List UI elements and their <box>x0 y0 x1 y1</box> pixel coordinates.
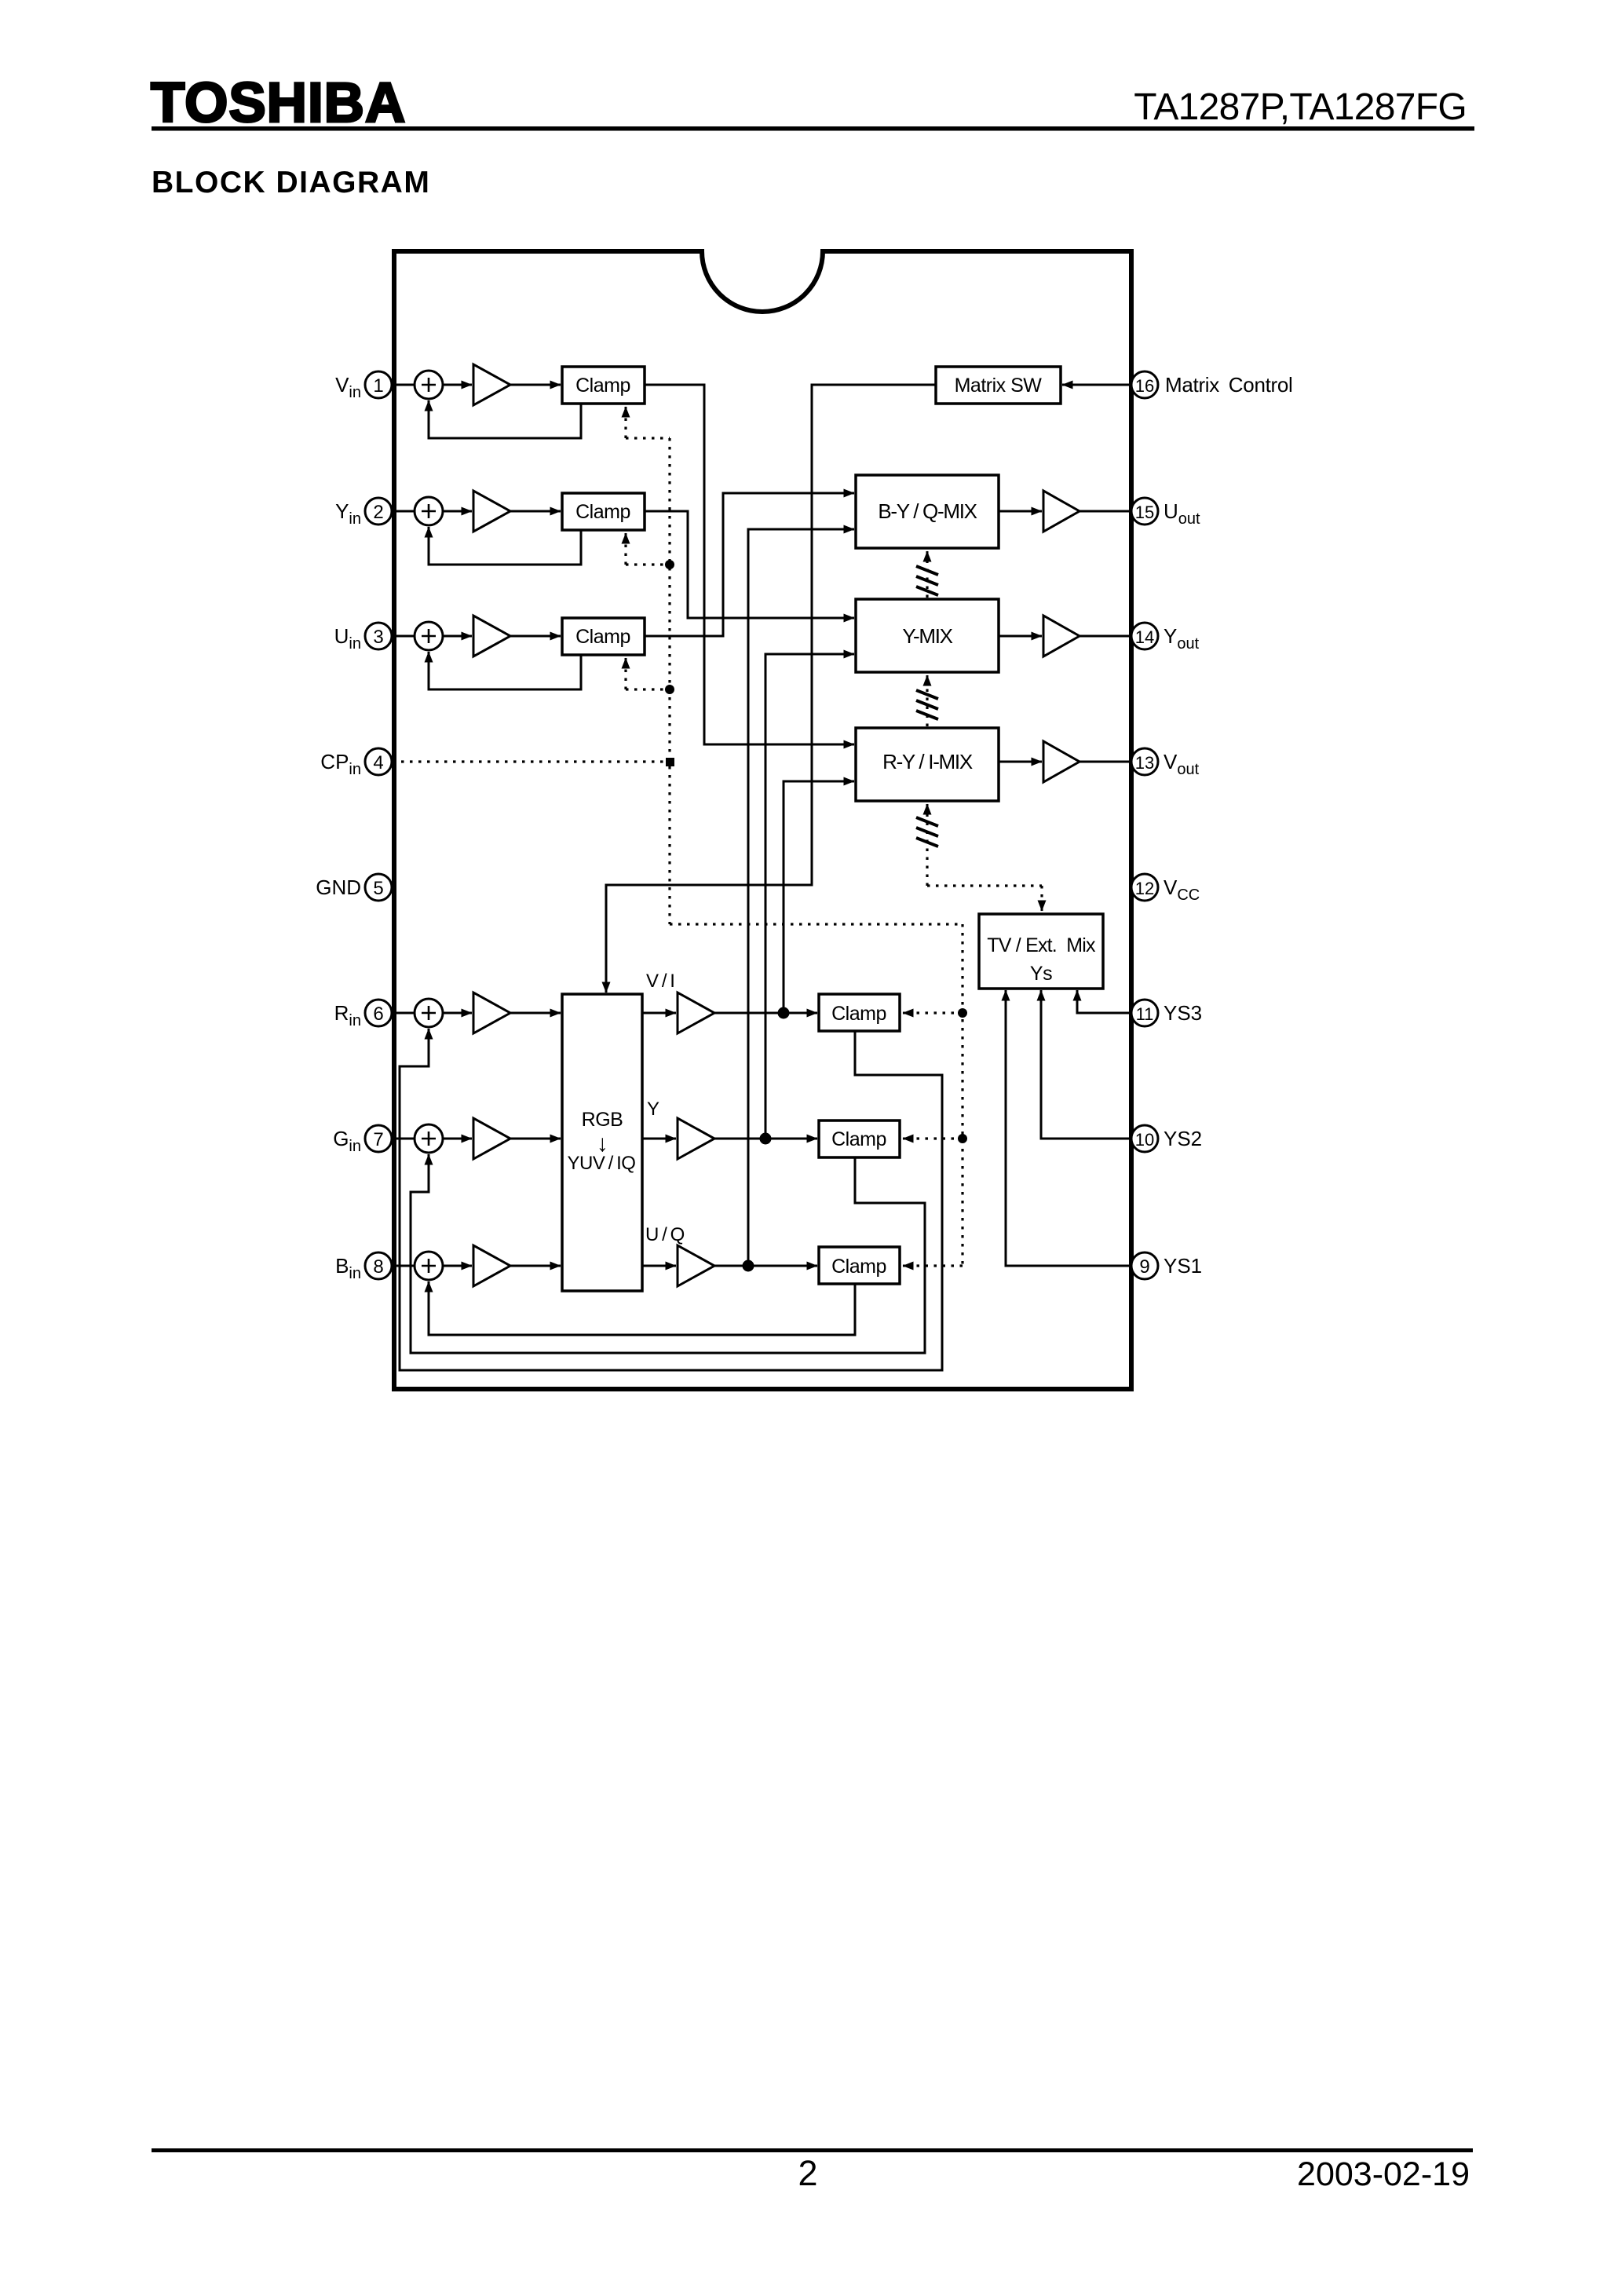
pin 6 circle <box>365 1000 392 1026</box>
wire A2 to clamp2 <box>510 510 561 513</box>
wire A15 to pin15 <box>1080 510 1131 513</box>
svg-text:YS1: YS1 <box>1164 1254 1202 1278</box>
summing junction S3 <box>415 622 443 650</box>
dashed control into B-Y/Q-MIX bottom <box>926 561 928 598</box>
wire A1 to clamp1 <box>510 384 561 386</box>
svg-text:Vin: Vin <box>335 373 361 401</box>
wire S7 to amp A7 <box>443 1138 472 1140</box>
summing junction S7 <box>415 1124 443 1153</box>
clamp box row1 <box>562 367 645 404</box>
wire A8 to RGB matrix <box>510 1265 561 1267</box>
dashed arrow stub into clamp3 bottom <box>625 658 627 667</box>
wire S2 to amp A2 <box>443 510 472 513</box>
wire feedback row8 loop <box>429 1281 855 1335</box>
dotted clamp2 bottom horizontal <box>626 563 670 565</box>
svg-text:3: 3 <box>373 627 383 648</box>
pin 1 circle <box>365 371 392 398</box>
svg-text:Matrix Control: Matrix Control <box>1165 373 1293 397</box>
dashed arrow stub into Y-MIX <box>926 675 929 685</box>
wire A10 to clamp7 <box>714 1138 817 1140</box>
svg-text:6: 6 <box>373 1004 383 1025</box>
clamp box row7 <box>819 1121 900 1157</box>
dotted wire CPin row <box>393 760 667 762</box>
pin 8 circle <box>365 1252 392 1279</box>
pin 12 circle <box>1131 874 1158 901</box>
pin 16 circle <box>1131 371 1158 398</box>
amplifier A3 <box>473 616 510 656</box>
wire feedback row3 <box>429 652 581 689</box>
svg-text:Y-MIX: Y-MIX <box>902 624 952 648</box>
dotted junction square CPin <box>666 758 674 766</box>
wire A3 to clamp3 <box>510 635 561 638</box>
header rule <box>152 126 1474 131</box>
summing junction S1 <box>415 371 443 399</box>
svg-text:2003-02-19: 2003-02-19 <box>1297 2155 1470 2193</box>
dashed arrow stub into R-Y/I-MIX <box>926 804 929 812</box>
wire pin6 to summing S6 <box>392 1012 415 1015</box>
svg-text:Clamp: Clamp <box>831 1128 886 1150</box>
svg-text:R-Y / I-MIX: R-Y / I-MIX <box>882 750 973 773</box>
svg-text:4: 4 <box>373 752 383 773</box>
svg-text:Matrix SW: Matrix SW <box>955 375 1043 397</box>
clamp box row6 <box>819 994 900 1031</box>
wire Matrix SW to RGB matrix top <box>606 385 936 993</box>
amplifier A15 <box>1043 491 1080 532</box>
svg-text:16: 16 <box>1135 376 1154 396</box>
svg-text:Uin: Uin <box>334 624 361 653</box>
R-Y/I-MIX box <box>856 728 999 801</box>
summing junction S2 <box>415 497 443 525</box>
clamp box row3 <box>562 618 645 655</box>
Matrix SW box <box>936 367 1061 404</box>
svg-text:V / I: V / I <box>646 971 674 992</box>
dashed arrow stub into clamp7 right <box>903 1138 912 1140</box>
amplifier A13 <box>1043 741 1080 782</box>
wire clamp1 out to R-Y/I-MIX input1 <box>645 385 854 744</box>
svg-text:Clamp: Clamp <box>575 501 630 523</box>
svg-text:VCC: VCC <box>1164 876 1200 904</box>
svg-text:Rin: Rin <box>334 1001 361 1029</box>
svg-text:Yout: Yout <box>1164 624 1200 653</box>
dotted clamp2 bottom vertical <box>624 543 627 565</box>
svg-text:YS2: YS2 <box>1164 1127 1202 1150</box>
svg-text:CPin: CPin <box>320 750 361 778</box>
svg-text:Clamp: Clamp <box>575 375 630 397</box>
svg-text:2: 2 <box>798 2153 817 2193</box>
svg-text:Bin: Bin <box>335 1254 361 1282</box>
dotted into clamp6 right <box>912 1011 963 1014</box>
wire clamp2 out to Y-MIX input1 <box>645 511 854 618</box>
svg-text:Clamp: Clamp <box>831 1003 886 1025</box>
amplifier A14 <box>1043 616 1080 656</box>
svg-text:TOSHIBA: TOSHIBA <box>151 72 406 134</box>
svg-text:YS3: YS3 <box>1164 1001 1202 1025</box>
dotted junction dot row3 <box>665 685 674 694</box>
svg-text:Vout: Vout <box>1164 750 1200 778</box>
junction dot row7 <box>761 1134 770 1143</box>
wire feedback row7 long loop <box>411 1154 925 1353</box>
wire feedback row1 <box>429 400 581 438</box>
svg-text:1: 1 <box>373 375 383 397</box>
pin 15 circle <box>1131 498 1158 525</box>
dotted junction dot row2 <box>665 560 674 569</box>
svg-text:8: 8 <box>373 1256 383 1278</box>
wire Y-MIX to amp A14 <box>999 635 1042 638</box>
wire pin10 YS2 to TV/Ext box <box>1041 990 1131 1139</box>
dashed control down into TV/Ext box top <box>1040 886 1043 901</box>
pin 10 circle <box>1131 1125 1158 1152</box>
wire U/Q bus row8 to B-Y/Q-MIX input2 <box>748 529 854 1266</box>
wire A7 to RGB matrix <box>510 1138 561 1140</box>
Y-MIX box <box>856 599 999 672</box>
dotted junction dot row6 right <box>958 1008 967 1018</box>
B-Y/Q-MIX box <box>856 475 999 548</box>
pin 9 circle <box>1131 1252 1158 1279</box>
wire B-Y/Q-MIX to amp A15 <box>999 510 1042 513</box>
clamp box row2 <box>562 493 645 530</box>
pin 4 circle <box>365 748 392 775</box>
wire A11 to clamp8 <box>714 1265 817 1267</box>
dotted clamp1 bottom vertical <box>624 416 627 438</box>
dotted junction dot row7 right <box>958 1134 967 1143</box>
summing junction S6 <box>415 999 443 1027</box>
wire pin16 to Matrix SW <box>1062 384 1131 386</box>
svg-text:15: 15 <box>1135 503 1154 522</box>
svg-text:RGB: RGB <box>582 1109 623 1131</box>
svg-text:BLOCK DIAGRAM: BLOCK DIAGRAM <box>152 166 430 199</box>
dashed arrow stub into clamp6 right <box>903 1012 912 1015</box>
dashed arrow stub into clamp2 bottom <box>625 533 627 543</box>
bus slashes below B-Y/Q-MIX <box>916 566 938 595</box>
svg-text:YUV / IQ: YUV / IQ <box>568 1153 636 1174</box>
wire A6 to RGB matrix <box>510 1012 561 1015</box>
svg-text:7: 7 <box>373 1129 383 1150</box>
summing junction S8 <box>415 1252 443 1280</box>
dashed arrow stub into B-Y/Q-MIX <box>926 551 929 561</box>
footer rule <box>152 2148 1473 2152</box>
IC package outline <box>394 251 1131 1389</box>
wire pin7 to summing S7 <box>392 1138 415 1140</box>
wire A13 to pin13 <box>1080 761 1131 763</box>
amplifier A8 <box>473 1245 510 1286</box>
pin 7 circle <box>365 1125 392 1152</box>
svg-text:U / Q: U / Q <box>645 1224 685 1245</box>
amplifier A9 V/I <box>678 993 714 1033</box>
wire S1 to amp A1 <box>443 384 472 386</box>
svg-text:Uout: Uout <box>1164 499 1200 528</box>
bus slashes below Y-MIX <box>916 690 938 719</box>
dashed control horizontal to TV/Ext mix <box>927 884 1042 887</box>
svg-text:GND: GND <box>316 876 361 899</box>
pin 3 circle <box>365 623 392 649</box>
bus slashes below R-Y/I-MIX <box>916 817 938 846</box>
wire pin1 to summing S1 <box>392 384 415 386</box>
wire RGB out U/Q to amp A11 <box>642 1265 676 1267</box>
dotted into clamp8 right <box>912 1264 963 1267</box>
dotted horizontal y1177 <box>670 923 963 925</box>
wire pin9 YS1 to TV/Ext box <box>1006 990 1131 1266</box>
wire pin11 YS3 to TV/Ext box <box>1077 990 1131 1013</box>
wire S6 to amp A6 <box>443 1012 472 1015</box>
wire A9 to clamp6 <box>714 1012 817 1015</box>
amplifier A1 <box>473 364 510 405</box>
dotted clamp3 bottom horizontal <box>626 688 670 690</box>
svg-text:Yin: Yin <box>335 499 361 528</box>
dotted clamp1 bottom horizontal <box>626 437 670 439</box>
wire R-Y/I-MIX to amp A13 <box>999 761 1042 763</box>
dashed control into R-Y/I-MIX bottom <box>926 812 928 886</box>
svg-text:TV / Ext. Mix: TV / Ext. Mix <box>987 934 1096 956</box>
dotted vertical bus x1226 <box>961 924 963 1266</box>
TV/Ext Mix Ys box <box>979 914 1103 989</box>
amplifier A6 <box>473 993 510 1033</box>
wire clamp3 out to B-Y/Q-MIX input1 <box>645 493 854 636</box>
svg-text:9: 9 <box>1139 1256 1149 1278</box>
junction dot row8 <box>743 1261 753 1270</box>
wire A14 to pin14 <box>1080 635 1131 638</box>
svg-text:Y: Y <box>647 1099 659 1120</box>
svg-text:Clamp: Clamp <box>575 626 630 648</box>
wire feedback row2 <box>429 527 581 565</box>
pin 5 circle <box>365 874 392 901</box>
svg-text:14: 14 <box>1135 627 1154 647</box>
dashed arrow stub into TV/Ext box top <box>1041 901 1043 911</box>
dotted into clamp7 right <box>912 1137 963 1139</box>
amplifier A11 U/Q <box>678 1245 714 1286</box>
wire pin3 to summing S3 <box>392 635 415 638</box>
svg-text:Gin: Gin <box>333 1127 361 1155</box>
pin 13 circle <box>1131 748 1158 775</box>
svg-text:13: 13 <box>1135 753 1154 773</box>
pin 14 circle <box>1131 623 1158 649</box>
wire RGB out V/I to amp A9 <box>642 1012 676 1015</box>
wire Y bus row7 to Y-MIX input2 <box>765 654 854 1139</box>
svg-text:12: 12 <box>1135 879 1154 898</box>
wire pin2 to summing S2 <box>392 510 415 513</box>
wire V/I bus row6 to R-Y/I-MIX input2 <box>784 781 854 1013</box>
dotted clamp3 bottom vertical <box>624 667 627 689</box>
wire S3 to amp A3 <box>443 635 472 638</box>
amplifier A2 <box>473 491 510 532</box>
junction dot row6 <box>779 1008 788 1018</box>
pin 11 circle <box>1131 1000 1158 1026</box>
wire feedback row6 long loop <box>400 1029 942 1370</box>
pin 2 circle <box>365 498 392 525</box>
dashed arrow stub into clamp1 bottom <box>625 407 627 416</box>
wire pin8 to summing S8 <box>392 1265 415 1267</box>
wire RGB out Y to amp A10 <box>642 1138 676 1140</box>
svg-text:Clamp: Clamp <box>831 1256 886 1278</box>
svg-text:B-Y / Q-MIX: B-Y / Q-MIX <box>878 499 977 523</box>
svg-text:10: 10 <box>1135 1130 1154 1150</box>
svg-text:Ys: Ys <box>1030 963 1052 985</box>
svg-text:11: 11 <box>1136 1004 1154 1024</box>
svg-text:2: 2 <box>373 502 383 523</box>
amplifier A10 Y <box>678 1118 714 1159</box>
svg-text:TA1287P,TA1287FG: TA1287P,TA1287FG <box>1134 86 1467 128</box>
svg-text:5: 5 <box>373 878 383 899</box>
RGB to YUV/IQ matrix box <box>562 994 642 1291</box>
dotted main vertical bus x853 <box>668 438 670 924</box>
amplifier A7 <box>473 1118 510 1159</box>
dashed arrow stub into clamp8 right <box>903 1265 912 1267</box>
wire S8 to amp A8 <box>443 1265 472 1267</box>
dashed control into Y-MIX bottom <box>926 685 928 726</box>
clamp box row8 <box>819 1247 900 1284</box>
